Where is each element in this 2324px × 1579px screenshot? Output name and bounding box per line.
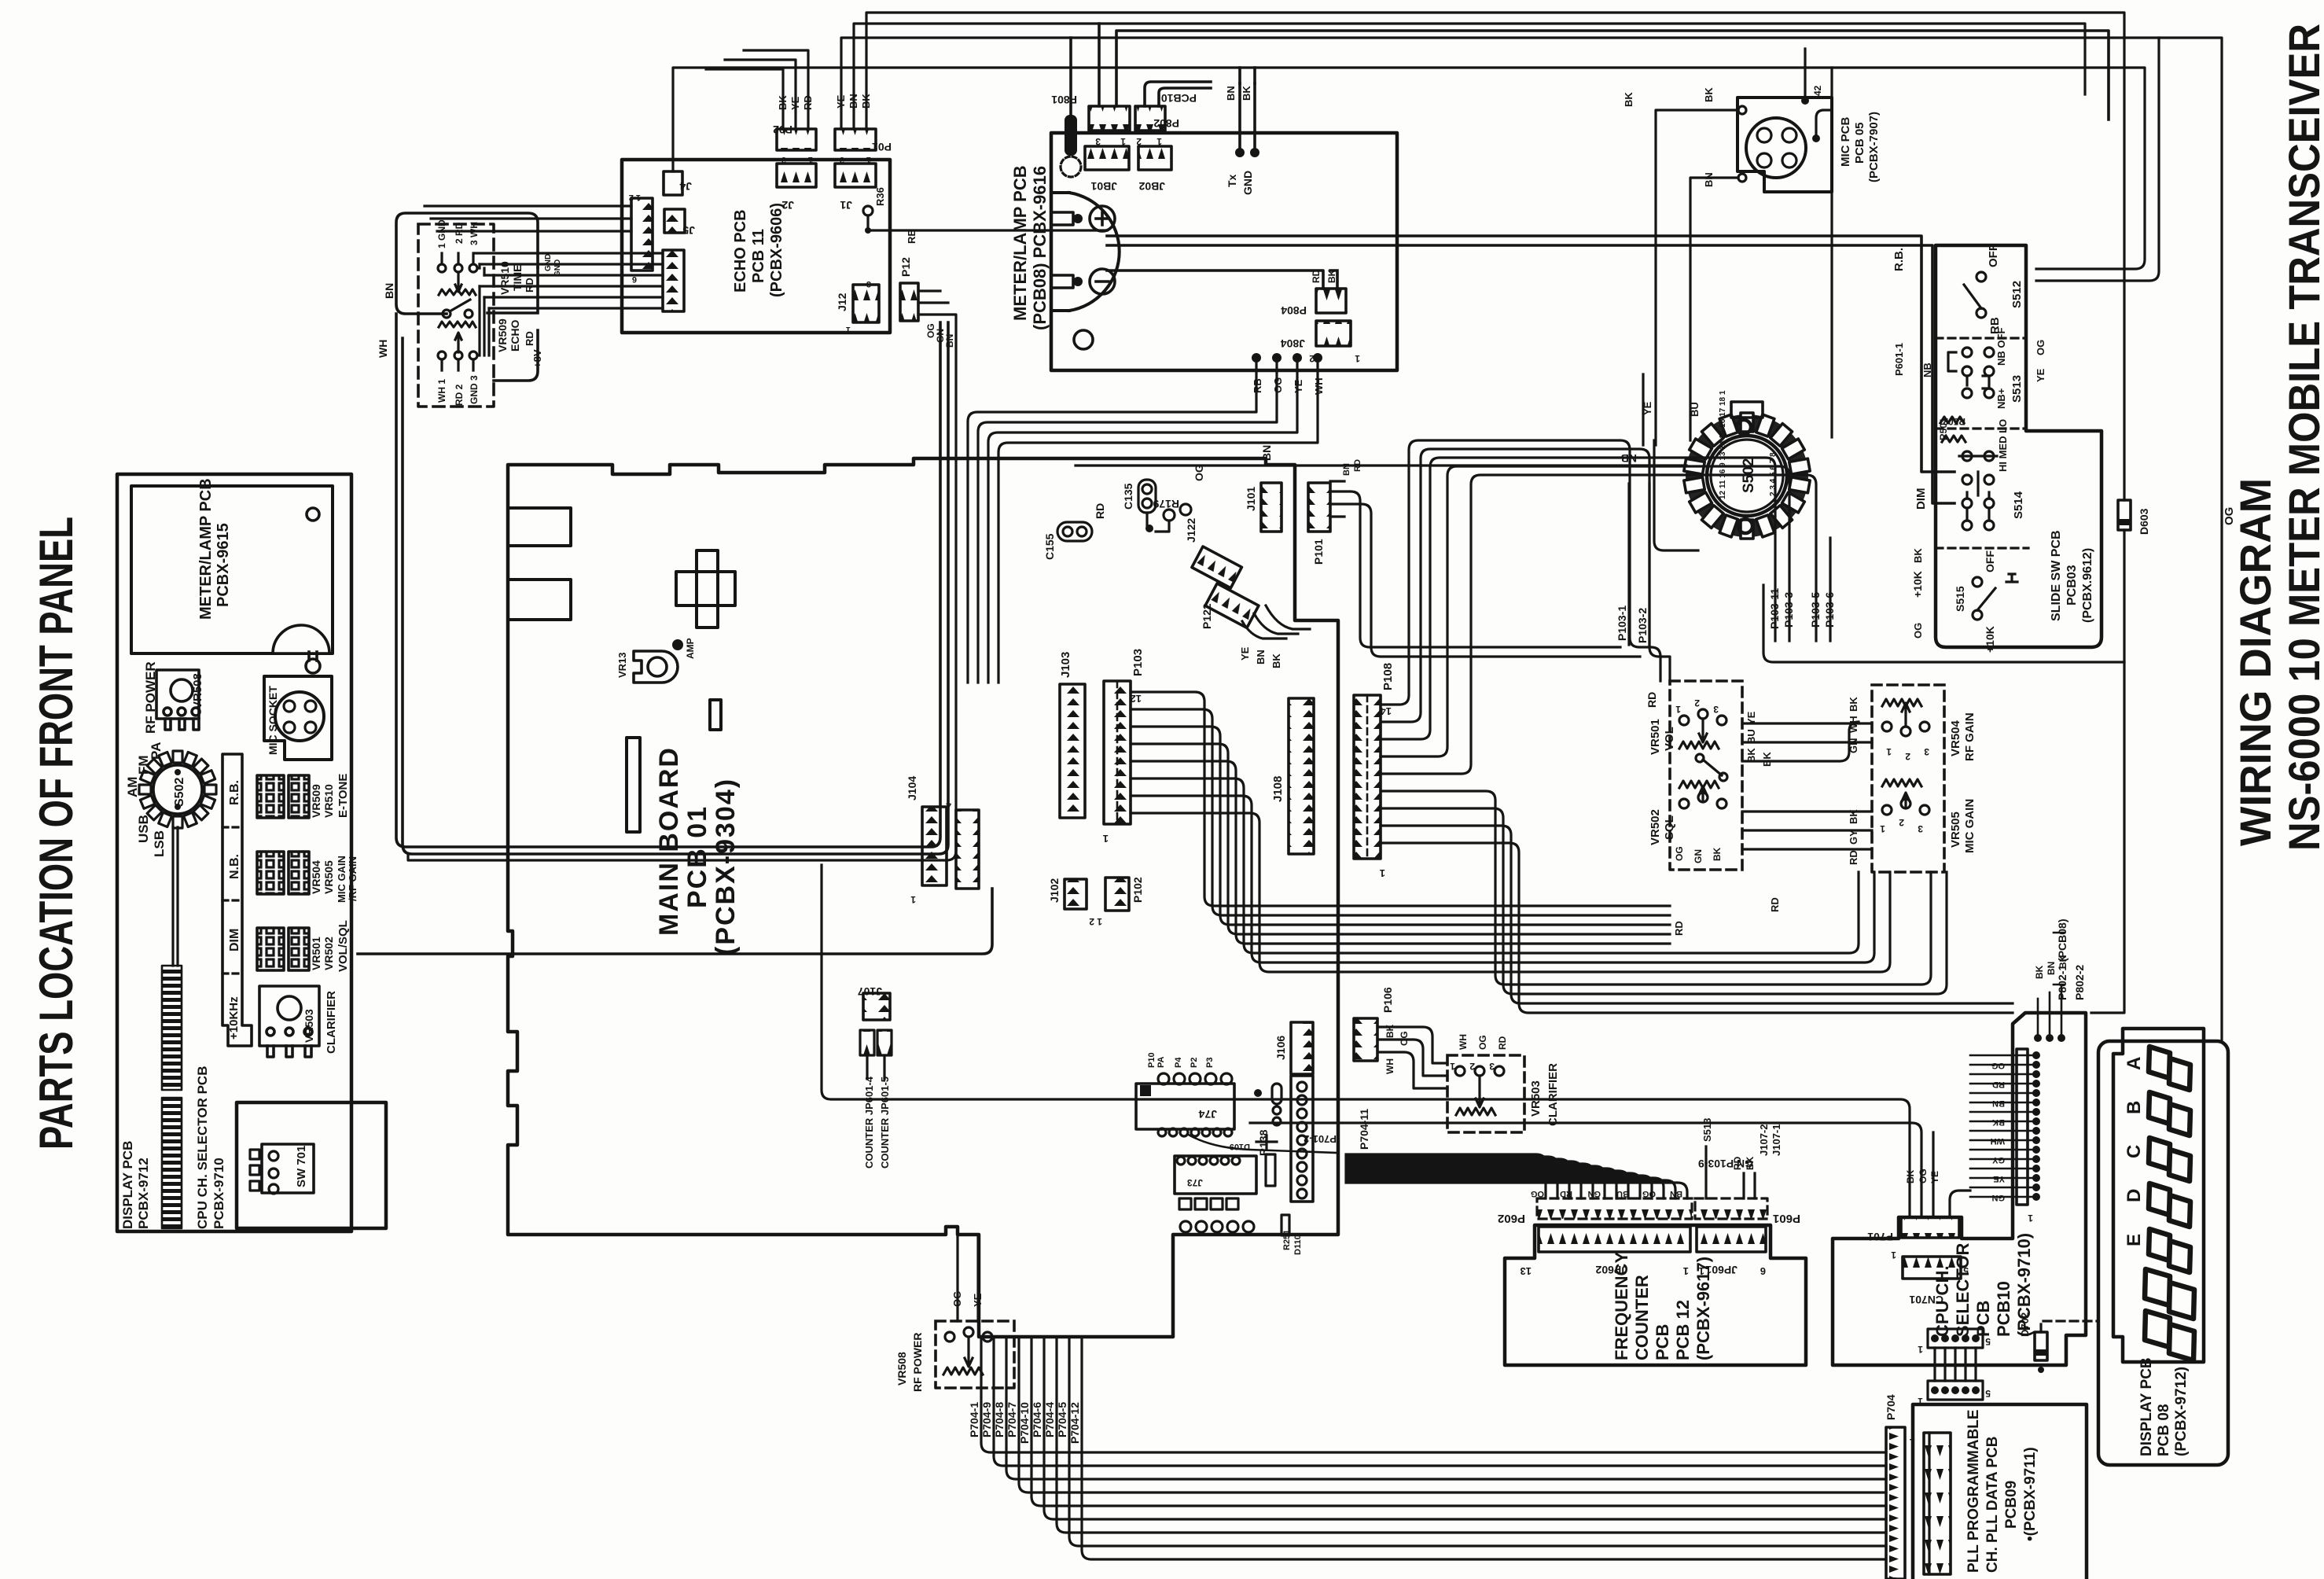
svg-text:1: 1	[1910, 1437, 1915, 1448]
svg-text:COUNTER: COUNTER	[1632, 1275, 1652, 1360]
svg-text:P704-7: P704-7	[1006, 1402, 1018, 1437]
svg-text:5: 5	[1985, 1388, 1991, 1399]
svg-text:C135: C135	[1122, 483, 1134, 510]
svg-text:GN: GN	[1587, 1189, 1601, 1198]
svg-text:BK: BK	[1761, 752, 1773, 767]
svg-text:BK: BK	[1848, 697, 1859, 712]
svg-text:P704-12: P704-12	[1068, 1402, 1081, 1444]
svg-text:BU: BU	[1616, 1189, 1629, 1198]
svg-text:P122: P122	[1201, 603, 1213, 629]
svg-text:NB OFF: NB OFF	[1995, 328, 2007, 366]
svg-text:PCB: PCB	[1653, 1324, 1672, 1360]
svg-text:METER/LAMP PCB: METER/LAMP PCB	[197, 478, 215, 620]
svg-text:3: 3	[781, 155, 786, 164]
svg-text:PCB09: PCB09	[2003, 1481, 2020, 1529]
svg-text:J107-2: J107-2	[1758, 1124, 1770, 1156]
svg-text:OG: OG	[951, 1291, 963, 1307]
svg-text:4: 4	[946, 800, 951, 811]
svg-text:J804: J804	[1281, 337, 1305, 350]
svg-text:BN: BN	[944, 334, 955, 348]
svg-text:GND: GND	[1241, 171, 1254, 195]
svg-text:BK: BK	[1992, 1117, 2005, 1127]
svg-text:P108: P108	[1381, 663, 1395, 690]
svg-text:GND 3: GND 3	[469, 375, 480, 404]
svg-text:2: 2	[1899, 817, 1904, 828]
svg-text:AM: AM	[125, 777, 140, 797]
svg-text:A: A	[2124, 1057, 2145, 1070]
svg-text:VR510: VR510	[498, 261, 511, 295]
svg-text:PCB 05: PCB 05	[1853, 122, 1866, 164]
svg-text:WH: WH	[1313, 377, 1325, 395]
svg-text:OG: OG	[1642, 1189, 1656, 1198]
svg-text:SW 701: SW 701	[295, 1146, 308, 1187]
svg-text:P704-1: P704-1	[968, 1402, 980, 1437]
svg-text:PCB 12: PCB 12	[1673, 1300, 1693, 1360]
svg-text:OG: OG	[1477, 1035, 1488, 1050]
svg-text:VR502: VR502	[1649, 809, 1662, 845]
svg-text:P106: P106	[1381, 987, 1394, 1013]
svg-text:P01: P01	[872, 141, 892, 153]
svg-text:RD: RD	[1769, 897, 1781, 912]
svg-text:J106: J106	[1274, 1036, 1287, 1060]
svg-text:OG: OG	[1399, 1031, 1410, 1046]
svg-text:1: 1	[1675, 704, 1681, 715]
svg-text:BN: BN	[1703, 172, 1715, 187]
svg-text:RD: RD	[802, 95, 814, 110]
svg-text:BK: BK	[860, 94, 872, 109]
svg-text:VR501: VR501	[310, 937, 322, 970]
svg-text:P704-9: P704-9	[980, 1402, 993, 1437]
svg-text:2: 2	[1469, 1061, 1475, 1072]
svg-text:J4: J4	[679, 180, 692, 193]
svg-text:P601-1: P601-1	[1893, 343, 1905, 376]
svg-text:GN: GN	[1693, 849, 1704, 863]
svg-text:PCB 11: PCB 11	[750, 229, 767, 283]
svg-text:J74: J74	[1198, 1108, 1217, 1121]
svg-text:(PCBX-9606): (PCBX-9606)	[768, 203, 785, 297]
svg-text:BK: BK	[1384, 1024, 1396, 1038]
svg-text:BK: BK	[1270, 653, 1282, 668]
svg-text:•(PCBX-9711): •(PCBX-9711)	[2022, 1447, 2039, 1541]
svg-text:3: 3	[840, 155, 844, 164]
svg-text:NB: NB	[1921, 363, 1933, 377]
svg-text:MIC PCB: MIC PCB	[1839, 117, 1852, 167]
svg-text:BK: BK	[1241, 86, 1252, 101]
svg-text:3: 3	[1924, 746, 1929, 757]
svg-text:+10KHz: +10KHz	[227, 996, 241, 1040]
svg-text:J102: J102	[1048, 878, 1061, 903]
svg-text:JP601: JP601	[1705, 1264, 1737, 1276]
svg-text:1: 1	[910, 894, 916, 905]
svg-text:1: 1	[846, 325, 851, 334]
svg-text:P4: P4	[1174, 1057, 1183, 1068]
svg-text:J5: J5	[682, 224, 695, 237]
svg-text:CH. PLL DATA PCB: CH. PLL DATA PCB	[1984, 1437, 2001, 1573]
svg-text:WIRING DIAGRAM: WIRING DIAGRAM	[2230, 478, 2280, 846]
svg-text:JP602: JP602	[1595, 1264, 1627, 1276]
svg-text:2: 2	[1136, 136, 1142, 147]
svg-text:R.B.: R.B.	[228, 780, 241, 805]
svg-text:RD: RD	[1497, 1036, 1508, 1050]
svg-text:P704-5: P704-5	[1056, 1402, 1068, 1437]
svg-text:DIM: DIM	[1914, 488, 1928, 510]
svg-text:USB: USB	[136, 815, 151, 843]
svg-text:2: 2	[1905, 751, 1910, 762]
svg-text:RD: RD	[524, 331, 535, 346]
svg-text:S513: S513	[1701, 1118, 1713, 1142]
svg-text:12 11 16 9 13 14 15 16 1: 12 11 16 9 13 14 15 16 17 18 1	[1719, 390, 1727, 499]
svg-text:MIC GAIN: MIC GAIN	[1963, 799, 1977, 853]
svg-text:CPU CH. SELECTOR PCB: CPU CH. SELECTOR PCB	[195, 1066, 210, 1230]
svg-text:/RF GAIN: /RF GAIN	[347, 856, 359, 901]
svg-text:YE: YE	[835, 94, 847, 109]
svg-text:NB+: NB+	[1995, 388, 2007, 409]
svg-text:PCBX-9712: PCBX-9712	[136, 1158, 151, 1229]
svg-text:1: 1	[808, 155, 813, 164]
svg-text:1: 1	[1156, 136, 1162, 147]
svg-text:SELECTOR: SELECTOR	[1953, 1242, 1973, 1337]
svg-text:R179: R179	[1153, 498, 1179, 510]
svg-text:B: B	[2124, 1101, 2145, 1114]
svg-text:P601: P601	[1773, 1212, 1800, 1225]
svg-text:(PCBX-9712): (PCBX-9712)	[2173, 1367, 2190, 1456]
svg-text:P704-6: P704-6	[1031, 1402, 1043, 1437]
svg-text:RD 2: RD 2	[454, 384, 465, 406]
svg-text:OFF: OFF	[1987, 244, 2000, 267]
svg-text:P704-11: P704-11	[1358, 1109, 1370, 1150]
svg-text:VR501: VR501	[1649, 719, 1662, 755]
svg-text:1: 1	[1683, 1265, 1689, 1277]
svg-text:RB: RB	[906, 229, 917, 244]
svg-text:3: 3	[1095, 136, 1101, 147]
svg-text:BN: BN	[1255, 650, 1267, 664]
svg-text:YE: YE	[2035, 368, 2046, 382]
svg-text:METER/LAMP PCB: METER/LAMP PCB	[1010, 165, 1030, 321]
svg-text:P704-4: P704-4	[1043, 1402, 1056, 1437]
svg-text:1 GND: 1 GND	[436, 219, 447, 248]
svg-text:HI MED LO: HI MED LO	[1997, 419, 2009, 472]
svg-text:VR503: VR503	[303, 1009, 315, 1043]
svg-text:P804: P804	[1281, 304, 1307, 317]
svg-text:BN: BN	[1260, 445, 1273, 461]
svg-text:J73: J73	[1187, 1177, 1203, 1188]
svg-text:OG: OG	[1918, 1169, 1929, 1183]
svg-text:NB: NB	[1621, 452, 1637, 465]
svg-text:VR504: VR504	[1949, 720, 1962, 756]
svg-text:RD: RD	[1560, 1189, 1572, 1198]
svg-text:1: 1	[1120, 136, 1126, 147]
svg-text:P101: P101	[1312, 539, 1325, 565]
svg-text:VOL: VOL	[1663, 727, 1676, 751]
svg-text:COUNTER JP601-5: COUNTER JP601-5	[879, 1077, 891, 1169]
svg-text:YE: YE	[1642, 401, 1653, 415]
svg-text:NS-6000 10 METER MOBILE TRAN: NS-6000 10 METER MOBILE TRANSCEIVER	[2279, 24, 2324, 851]
svg-text:1: 1	[1699, 1265, 1704, 1277]
svg-text:DISPLAY PCB: DISPLAY PCB	[120, 1141, 135, 1229]
svg-text:VR508: VR508	[191, 673, 204, 709]
svg-text:RD: RD	[1673, 921, 1685, 936]
svg-text:P103: P103	[1131, 649, 1145, 676]
svg-text:S502: S502	[173, 778, 186, 807]
svg-text:J107-1: J107-1	[1771, 1124, 1782, 1156]
svg-text:BN: BN	[1992, 1099, 2005, 1108]
svg-text:VR505: VR505	[1949, 812, 1962, 848]
svg-text:Tx: Tx	[1226, 174, 1238, 187]
svg-text:JB01: JB01	[1090, 180, 1117, 193]
svg-text:MAIN BOARD: MAIN BOARD	[654, 746, 684, 936]
svg-text:VR509: VR509	[310, 784, 322, 818]
svg-text:BN: BN	[2046, 962, 2057, 975]
svg-text:MIC SOCKET: MIC SOCKET	[267, 686, 279, 755]
svg-text:YE: YE	[1929, 1171, 1940, 1183]
svg-text:COUNTER JP601-4: COUNTER JP601-4	[863, 1076, 875, 1169]
svg-text:1: 1	[1918, 1344, 1923, 1355]
svg-text:OG: OG	[1531, 1189, 1544, 1198]
svg-text:J104: J104	[906, 776, 918, 801]
svg-text:RD: RD	[1992, 1080, 2005, 1089]
svg-text:P602: P602	[1498, 1212, 1525, 1225]
svg-text:JB02: JB02	[1138, 180, 1165, 193]
svg-text:N.B.: N.B.	[228, 854, 241, 879]
svg-text:YE: YE	[1993, 1174, 2005, 1183]
svg-text:D: D	[2124, 1189, 2145, 1202]
svg-text:1: 1	[1450, 1061, 1455, 1072]
svg-text:MIC GAIN: MIC GAIN	[336, 856, 347, 903]
svg-text:1: 1	[2028, 1213, 2033, 1224]
svg-text:RF GAIN: RF GAIN	[1963, 712, 1977, 761]
svg-text:2: 2	[1891, 1575, 1896, 1579]
svg-text:BN: BN	[1670, 1189, 1682, 1198]
svg-text:BN: BN	[383, 283, 395, 299]
svg-text:P802-2: P802-2	[2073, 965, 2086, 1000]
svg-text:S512: S512	[2010, 281, 2024, 308]
svg-text:2: 2	[1694, 697, 1700, 709]
svg-text:WH: WH	[1991, 1136, 2005, 1146]
svg-text:J107: J107	[858, 985, 882, 998]
svg-text:AMP: AMP	[685, 638, 696, 659]
svg-text:OG: OG	[2223, 507, 2236, 525]
svg-text:S514: S514	[2012, 491, 2025, 519]
svg-text:PCB 01: PCB 01	[682, 805, 712, 908]
svg-text:SLIDE SW PCB: SLIDE SW PCB	[2050, 530, 2063, 621]
svg-text:WH 1: WH 1	[436, 379, 447, 403]
svg-text:+10K: +10K	[1984, 626, 1996, 653]
svg-text:CLARIFIER: CLARIFIER	[1546, 1063, 1560, 1126]
svg-text:YE: YE	[789, 96, 801, 110]
svg-text:PCB10: PCB10	[1994, 1281, 2013, 1337]
svg-text:OG: OG	[1674, 846, 1685, 861]
svg-text:1: 1	[1103, 833, 1109, 845]
svg-text:SQL: SQL	[1663, 815, 1676, 840]
svg-text:ECHO: ECHO	[509, 319, 521, 352]
svg-text:YE: YE	[972, 1293, 984, 1307]
svg-text:BK: BK	[2034, 965, 2045, 979]
svg-text:J12: J12	[836, 293, 848, 311]
svg-text:VR508: VR508	[895, 1352, 908, 1386]
svg-text:P801: P801	[1051, 94, 1077, 106]
svg-text:GND: GND	[544, 254, 553, 271]
svg-text:YE: YE	[1293, 379, 1304, 393]
svg-text:R502: R502	[1943, 416, 1965, 427]
svg-text:BN: BN	[1225, 86, 1237, 101]
svg-text:WH: WH	[1384, 1058, 1396, 1074]
svg-text:J1: J1	[840, 199, 852, 212]
svg-text:WH: WH	[377, 340, 389, 358]
svg-text:BK: BK	[1623, 92, 1635, 107]
svg-text:(PCB08) PCBX-9616: (PCB08) PCBX-9616	[1030, 166, 1050, 330]
svg-text:13: 13	[1521, 1265, 1532, 1277]
svg-text:VR502: VR502	[322, 937, 335, 970]
svg-text:DIM: DIM	[228, 929, 241, 951]
svg-text:CPU CH.: CPU CH.	[1932, 1266, 1952, 1337]
svg-text:BK: BK	[1912, 548, 1924, 563]
svg-text:VR505: VR505	[322, 860, 335, 894]
svg-text:BU: BU	[1689, 402, 1701, 417]
svg-text:C: C	[2124, 1145, 2145, 1158]
svg-text:BK: BK	[1703, 87, 1715, 102]
svg-text:PCBX-9710: PCBX-9710	[211, 1158, 226, 1229]
svg-text:3: 3	[866, 279, 871, 289]
svg-text:E: E	[2124, 1234, 2145, 1246]
svg-text:OG: OG	[1912, 623, 1924, 639]
svg-text:E-TONE: E-TONE	[336, 774, 350, 818]
svg-text:1: 1	[1886, 746, 1892, 757]
svg-text:J2: J2	[781, 199, 794, 212]
svg-text:3: 3	[1713, 704, 1719, 715]
svg-text:PCB03: PCB03	[2065, 565, 2079, 605]
svg-text:P802: P802	[1153, 117, 1179, 130]
svg-text:BK: BK	[1712, 847, 1723, 861]
svg-text:1: 1	[1355, 353, 1360, 364]
svg-text:P704-8: P704-8	[993, 1402, 1006, 1437]
svg-text:J122: J122	[1185, 518, 1197, 543]
svg-text:S513: S513	[2010, 375, 2024, 403]
svg-text:2 RD: 2 RD	[454, 222, 465, 244]
svg-text:R.B.: R.B.	[1892, 248, 1906, 271]
svg-text:1: 1	[866, 155, 871, 164]
svg-text:P103-2: P103-2	[1636, 608, 1649, 643]
svg-text:OG: OG	[1272, 377, 1284, 393]
svg-text:J108: J108	[1271, 776, 1285, 802]
svg-text:P704: P704	[1885, 1394, 1897, 1420]
svg-text:D603: D603	[2138, 508, 2150, 535]
svg-text:P3: P3	[1205, 1058, 1215, 1068]
svg-text:VR510: VR510	[322, 784, 335, 818]
svg-text:(PCBX.9612): (PCBX.9612)	[2081, 548, 2094, 623]
svg-text:P802-1 (PCB08): P802-1 (PCB08)	[2056, 919, 2068, 1001]
svg-text:OG: OG	[2035, 340, 2046, 355]
svg-text:6: 6	[1760, 1265, 1766, 1277]
svg-text:J103: J103	[1059, 652, 1072, 678]
svg-text:GN P103-9: GN P103-9	[1698, 1158, 1753, 1170]
svg-text:R36: R36	[874, 187, 886, 206]
svg-text:5: 5	[1985, 1336, 1991, 1347]
svg-text:D110: D110	[1293, 1235, 1303, 1255]
svg-text:YE: YE	[1239, 646, 1251, 661]
svg-text:RD: RD	[1646, 692, 1658, 708]
svg-text:R251: R251	[1282, 1230, 1292, 1250]
svg-text:PCB 08: PCB 08	[2156, 1404, 2172, 1456]
svg-text:PA: PA	[149, 742, 164, 760]
svg-text:DISPLAY PCB: DISPLAY PCB	[2138, 1357, 2155, 1456]
svg-text:P701: P701	[1867, 1231, 1893, 1243]
svg-text:VR509: VR509	[496, 318, 509, 352]
svg-text:VR504: VR504	[310, 860, 322, 894]
svg-text:PCB10: PCB10	[1161, 92, 1197, 105]
svg-text:S515: S515	[1954, 586, 1966, 612]
svg-text:CLARIFIER: CLARIFIER	[325, 991, 338, 1054]
svg-text:42: 42	[1812, 85, 1823, 96]
svg-text:P701-2: P701-2	[1304, 1133, 1337, 1145]
svg-text:BK: BK	[777, 95, 789, 110]
svg-text:PA: PA	[1156, 1056, 1166, 1068]
svg-text:P12: P12	[899, 257, 912, 277]
svg-text:1 2: 1 2	[1089, 916, 1102, 927]
svg-text:BK: BK	[1905, 1169, 1916, 1183]
svg-text:(PCBX-7907): (PCBX-7907)	[1867, 112, 1881, 182]
svg-text:+10K: +10K	[1911, 571, 1924, 598]
svg-text:LSB: LSB	[152, 830, 167, 857]
svg-text:C155: C155	[1043, 533, 1056, 560]
svg-text:RD: RD	[1848, 850, 1859, 865]
svg-text:GN: GN	[1991, 1193, 2005, 1202]
svg-text:1 2: 1 2	[629, 193, 641, 202]
svg-text:1: 1	[1380, 867, 1385, 879]
svg-text:12: 12	[1131, 693, 1142, 705]
svg-text:P704-10: P704-10	[1018, 1402, 1031, 1444]
svg-text:P102: P102	[1131, 877, 1144, 903]
svg-text:RB: RB	[1252, 378, 1263, 393]
svg-text:RD: RD	[1094, 503, 1106, 519]
svg-text:BN: BN	[848, 94, 859, 109]
svg-text:ECHO PCB: ECHO PCB	[732, 209, 749, 293]
svg-text:3: 3	[1489, 1061, 1495, 1072]
svg-text:BK: BK	[1326, 269, 1337, 283]
svg-text:RD: RD	[1311, 269, 1322, 283]
svg-text:PCBX-9615: PCBX-9615	[215, 523, 232, 607]
svg-text:14: 14	[1380, 705, 1392, 717]
svg-text:3: 3	[1918, 823, 1923, 834]
svg-text:OFF: OFF	[1984, 550, 1996, 572]
svg-text:3 WH: 3 WH	[469, 222, 480, 245]
svg-text:OG: OG	[1991, 1061, 2005, 1070]
svg-text:P10: P10	[1147, 1052, 1156, 1068]
svg-text:P2: P2	[1190, 1058, 1199, 1068]
svg-text:VOL/SQL: VOL/SQL	[336, 920, 350, 972]
svg-text:WH: WH	[1458, 1034, 1469, 1050]
svg-text:VR13: VR13	[616, 652, 628, 678]
svg-text:P103-1: P103-1	[1616, 605, 1628, 641]
svg-text:1: 1	[1891, 1250, 1896, 1261]
svg-text:PARTS LOCATION OF FRONT PANEL: PARTS LOCATION OF FRONT PANEL	[30, 517, 83, 1150]
svg-text:RF POWER: RF POWER	[143, 661, 158, 734]
svg-text:(PCBX-9304): (PCBX-9304)	[711, 778, 741, 955]
svg-text:PLL PROGRAMMABLE: PLL PROGRAMMABLE	[1965, 1409, 1982, 1573]
svg-text:GY: GY	[1848, 830, 1859, 845]
svg-text:RF POWER: RF POWER	[911, 1333, 924, 1392]
svg-text:D702: D702	[2019, 1312, 2031, 1337]
svg-text:GY: GY	[1991, 1155, 2005, 1165]
svg-text:J101: J101	[1245, 487, 1257, 511]
svg-text:1: 1	[1880, 823, 1885, 834]
